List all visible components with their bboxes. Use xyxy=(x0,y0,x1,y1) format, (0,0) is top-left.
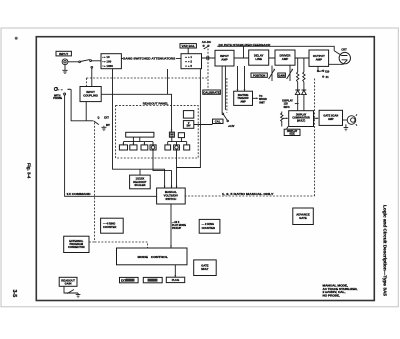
svg-text:Logic and Circuit Description—: Logic and Circuit Description—Type 3A5 xyxy=(383,205,388,297)
svg-text:AMP: AMP xyxy=(240,100,246,103)
svg-text:1, 2, 5 RATIO MANUAL ONLY: 1, 2, 5 RATIO MANUAL ONLY xyxy=(222,192,274,196)
svg-text:COUNTER: COUNTER xyxy=(103,225,116,229)
svg-text:SWITCH: SWITCH xyxy=(165,197,176,201)
svg-text:CALIBRATE: CALIBRATE xyxy=(203,90,220,94)
svg-text:GATE: GATE xyxy=(201,264,208,268)
svg-text:NO PROBE.: NO PROBE. xyxy=(323,295,341,298)
svg-text:PLUG: PLUG xyxy=(172,278,179,282)
svg-text:÷ 10: ÷ 10 xyxy=(104,55,110,59)
svg-text:(MULT): (MULT) xyxy=(297,120,305,123)
svg-text:AC-DC: AC-DC xyxy=(202,40,212,44)
svg-text:CAL: CAL xyxy=(215,120,221,124)
svg-text:+0.5V: +0.5V xyxy=(228,125,235,128)
svg-text:÷ 100: ÷ 100 xyxy=(104,60,112,64)
svg-text:GAIN: GAIN xyxy=(65,282,72,286)
svg-text:GANG SWITCHED ATTENUATORS: GANG SWITCHED ATTENUATORS xyxy=(123,56,176,60)
svg-text:— 4 RING: — 4 RING xyxy=(103,221,115,225)
svg-text:÷ 2: ÷ 2 xyxy=(188,60,192,64)
svg-text:X10: X10 xyxy=(325,70,330,73)
svg-text:MULT: MULT xyxy=(201,267,209,271)
svg-text:AMP: AMP xyxy=(282,57,288,61)
svg-text:READOUT PANEL: READOUT PANEL xyxy=(143,101,169,105)
svg-text:INFO: INFO xyxy=(284,106,290,109)
svg-text:PROBE: PROBE xyxy=(53,97,62,100)
svg-text:EXT: EXT xyxy=(104,117,109,120)
svg-text:POSITION: POSITION xyxy=(253,73,265,77)
svg-text:÷ 1000: ÷ 1000 xyxy=(104,64,113,68)
svg-text:1X COMMAND: 1X COMMAND xyxy=(67,192,91,196)
svg-text:GAIN: GAIN xyxy=(279,74,285,77)
svg-text:INT: INT xyxy=(106,124,110,127)
svg-text:3-5: 3-5 xyxy=(11,290,17,298)
svg-text:Fig. 3-4: Fig. 3-4 xyxy=(27,163,32,179)
svg-text:EXT: EXT xyxy=(121,279,127,283)
svg-text:MODE CONTROL: MODE CONTROL xyxy=(138,255,169,259)
svg-text:COUNTER: COUNTER xyxy=(202,226,215,230)
svg-text:GATE SCAN: GATE SCAN xyxy=(323,114,338,118)
svg-text:SCALER: SCALER xyxy=(134,183,145,187)
svg-text:SIZE: SIZE xyxy=(289,133,295,136)
svg-text:UNIT: UNIT xyxy=(259,101,265,104)
svg-text:Q: Q xyxy=(98,117,100,120)
svg-text:÷ 5: ÷ 5 xyxy=(188,64,192,68)
svg-text:DIV: DIV xyxy=(187,125,191,127)
svg-text:COUPLING: COUPLING xyxy=(83,94,98,98)
svg-text:ADVANCE: ADVANCE xyxy=(296,212,310,216)
svg-text:INPUT: INPUT xyxy=(59,52,68,56)
svg-text:LINE: LINE xyxy=(255,57,262,61)
svg-text:AMP: AMP xyxy=(328,117,334,121)
svg-text:AMP: AMP xyxy=(316,58,322,62)
svg-text:VAR BAL: VAR BAL xyxy=(182,44,195,48)
svg-text:GATE: GATE xyxy=(299,216,307,220)
svg-text:÷ 1: ÷ 1 xyxy=(188,55,192,59)
svg-text:PICKUP: PICKUP xyxy=(172,227,181,230)
svg-text:— 2 RING: — 2 RING xyxy=(202,222,214,226)
svg-text:CRT: CRT xyxy=(341,47,347,51)
svg-text:CONNECTOR: CONNECTOR xyxy=(68,245,85,249)
svg-text:AMP: AMP xyxy=(221,58,227,62)
